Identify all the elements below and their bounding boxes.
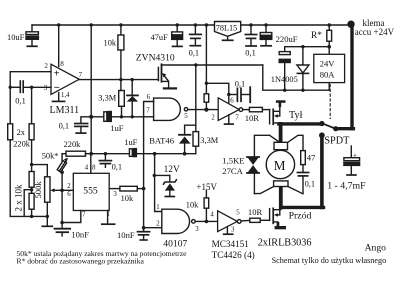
resistor R* (311, 23, 332, 54)
svg-text:7: 7 (146, 107, 150, 114)
node pot top tap (30, 163, 33, 166)
svg-text:Ango: Ango (365, 242, 387, 253)
op-amp LM311 (44, 61, 83, 116)
svg-text:2 x 10k: 2 x 10k (14, 184, 24, 212)
svg-text:500k: 500k (33, 181, 43, 199)
timer 555 (67, 154, 117, 219)
diode (parallel 3,3M) (127, 80, 138, 117)
svg-text:7: 7 (79, 72, 83, 79)
diode BAT46 (149, 135, 190, 154)
svg-text:Schemat tylko do użytku własne: Schemat tylko do użytku własnego (272, 256, 387, 265)
svg-text:2: 2 (156, 220, 160, 227)
node drain-BAT46 column (185, 65, 196, 135)
svg-text:Tył: Tył (289, 110, 303, 121)
svg-text:6: 6 (147, 94, 151, 101)
svg-text:0,1: 0,1 (15, 96, 25, 105)
svg-text:1uF: 1uF (110, 124, 123, 133)
svg-text:BAT46: BAT46 (149, 135, 175, 145)
svg-text:10uF: 10uF (7, 33, 25, 42)
svg-text:2: 2 (67, 183, 71, 190)
driver MC34151 A (211, 98, 242, 125)
capacitor 10uF (7, 25, 38, 46)
svg-text:0,1: 0,1 (112, 162, 122, 171)
svg-text:Przód: Przód (289, 211, 312, 222)
wire 40107A input tie bar (144, 102, 154, 117)
capacitor electrolytic (right of 78L15) (260, 23, 272, 46)
gate 40107 B (156, 204, 199, 249)
svg-text:555: 555 (83, 185, 98, 196)
svg-text:27CA: 27CA (222, 166, 243, 176)
svg-text:6: 6 (67, 191, 71, 198)
svg-text:R*: R* (311, 31, 322, 41)
wire LM311 output to ZVN gate (79, 79, 158, 81)
svg-text:1uF: 1uF (124, 138, 137, 147)
wire +24V column x206 (205, 23, 208, 26)
motor M (266, 150, 294, 178)
svg-text:1 - 4,7mF: 1 - 4,7mF (327, 181, 366, 192)
capacitor 47uF (151, 23, 183, 46)
gate 40107 A (146, 94, 188, 120)
svg-text:7: 7 (235, 115, 239, 122)
wire LM311 pin3 input (24, 86, 51, 88)
resistor 220k (left pair b) (13, 87, 34, 171)
svg-text:10R: 10R (245, 113, 260, 123)
svg-text:2x: 2x (17, 128, 26, 137)
svg-text:+: + (353, 150, 357, 159)
wire ZVN drain line (162, 64, 263, 66)
resistor 10R (driver B) (241, 207, 269, 223)
svg-text:3,3M: 3,3M (98, 94, 116, 103)
motor terminal top (274, 142, 288, 149)
svg-text:LM311: LM311 (50, 105, 80, 116)
capacitor 0,1 (right of 78L15) (245, 23, 256, 57)
svg-text:SPDT: SPDT (324, 136, 350, 147)
svg-text:TC4426 (4): TC4426 (4) (212, 250, 255, 260)
capacitor 1-4,7mF (327, 146, 366, 192)
svg-text:+: + (54, 68, 60, 79)
resistor 10k (divider a) (29, 172, 34, 188)
wire thick motor top (279, 122, 322, 125)
capacitor 0,1 (bootstrap) (229, 80, 250, 103)
svg-text:3: 3 (195, 226, 199, 233)
svg-text:8: 8 (92, 165, 96, 172)
wire left column down (9, 140, 11, 217)
resistor 10k (from rail) (104, 25, 124, 80)
svg-text:10R: 10R (248, 207, 263, 217)
wire relay top node (285, 46, 330, 48)
resistor 3,3M (BAT46) (193, 125, 219, 154)
capacitor 10nF (pot wiper) (55, 190, 90, 239)
capacitor 10nF (NAND B) (117, 230, 150, 240)
svg-text:12V: 12V (164, 165, 180, 175)
wire 40107B output (195, 220, 217, 222)
svg-text:1: 1 (156, 204, 159, 211)
svg-text:10k: 10k (104, 39, 117, 48)
svg-text:80A: 80A (320, 70, 336, 80)
svg-text:5: 5 (236, 210, 240, 217)
wire 40107A output (188, 109, 219, 111)
svg-text:1N4005: 1N4005 (271, 75, 298, 84)
transistor ZVN4310 (136, 52, 176, 88)
resistor 3,3M (comparator output) (98, 80, 124, 117)
svg-text:ZVN4310: ZVN4310 (136, 52, 175, 63)
resistor 47 (301, 151, 316, 165)
node rail-10k (119, 23, 122, 26)
motor terminal bottom (274, 181, 288, 187)
svg-text:10nF: 10nF (71, 229, 89, 239)
svg-text:24V: 24V (320, 58, 336, 68)
wire NAND B pin1 column (155, 154, 162, 212)
svg-text:220uF: 220uF (276, 34, 298, 44)
svg-text:10k: 10k (121, 194, 134, 203)
svg-text:0,1: 0,1 (189, 48, 199, 57)
svg-text:3: 3 (113, 191, 117, 198)
transistor Tyl MOSFET (270, 100, 303, 124)
svg-text:0,1: 0,1 (305, 179, 315, 188)
wire thick motor stubs (279, 124, 283, 142)
resistor 220k (left pair a) (8, 124, 13, 140)
wire 555 pins 2,6 (62, 189, 73, 191)
capacitor 1uF (coupling) (104, 112, 124, 134)
svg-text:3,3M: 3,3M (200, 136, 218, 145)
svg-text:8: 8 (60, 61, 64, 68)
driver MC34151 B (210, 210, 241, 235)
svg-text:50k*: 50k* (42, 152, 59, 161)
regulator 78L15 (215, 22, 241, 41)
wire bottom node (10, 215, 47, 217)
resistor 220k (horizontal, to 555) (62, 140, 85, 156)
svg-text:10k: 10k (186, 200, 199, 209)
node rail-pin8 (57, 23, 60, 26)
wire thick SPDT lower to motor bottom (320, 135, 324, 207)
svg-text:220k: 220k (13, 140, 31, 149)
zener 12V (154, 165, 180, 197)
capacitor 0,1 (LM311 input) (15, 81, 25, 105)
svg-text:R* dobrać do zastosowanego prz: R* dobrać do zastosowanego przekaźnika (17, 257, 145, 266)
svg-text:–: – (53, 82, 60, 93)
svg-text:MC34151: MC34151 (212, 239, 250, 249)
wire LM311 pin8 to rail (58, 25, 60, 67)
wire relay bottom line (263, 65, 329, 90)
svg-text:4: 4 (85, 165, 89, 172)
svg-text:1,5KE: 1,5KE (222, 155, 244, 165)
svg-text:2xIRLB3036: 2xIRLB3036 (258, 237, 312, 248)
wire NAND B pin2 column (143, 117, 145, 232)
svg-text:6: 6 (230, 98, 234, 105)
svg-text:0,1: 0,1 (245, 49, 255, 58)
capacitor 1uF (to 555 line) (124, 138, 137, 157)
svg-text:2: 2 (211, 114, 215, 121)
switch SPDT (319, 123, 353, 146)
svg-text:47: 47 (307, 152, 316, 162)
capacitor 0,1 (555 supply) (99, 154, 122, 172)
potentiometer 500k (33, 177, 62, 227)
node 1N4005 top (301, 45, 304, 48)
resistor 10k pullup +15V (186, 182, 218, 222)
node rail-x91 (90, 23, 93, 26)
svg-text:47uF: 47uF (151, 33, 169, 42)
svg-text:1,4: 1,4 (61, 92, 70, 99)
motor bridge frame (254, 135, 303, 193)
wire +24V top rail (32, 24, 353, 26)
wire LM311 pin2 input (10, 72, 51, 124)
diode 1N4005 (271, 47, 309, 90)
terminal klema accu (347, 21, 354, 28)
wire 555 pin7 (62, 211, 81, 223)
svg-text:40107: 40107 (163, 239, 187, 250)
wire comparator mix node y116.8 (81, 117, 144, 123)
svg-text:7: 7 (82, 212, 86, 219)
svg-text:+15V: +15V (196, 182, 217, 192)
svg-text:0,1: 0,1 (59, 122, 69, 131)
TVS 1,5KE27CA (222, 155, 259, 176)
resistor 10R (driver A) (243, 107, 270, 123)
wire dashed relay to switch (329, 85, 331, 119)
wire vertical x91 rail to 555 supply node (90, 25, 92, 154)
svg-text:accu +24V: accu +24V (355, 27, 395, 37)
svg-text:M: M (274, 158, 286, 173)
relay 24V 80A box (314, 54, 345, 90)
capacitor 220uF (relay) (279, 47, 290, 90)
resistor 10k (555 output) (109, 186, 143, 203)
svg-text:10nF: 10nF (117, 230, 135, 240)
resistor 10k (divider b) (14, 184, 35, 216)
wire jumper around lower 10k (24, 190, 31, 217)
svg-text:2: 2 (45, 63, 49, 70)
trimmer 50k* (42, 152, 68, 193)
svg-text:5: 5 (184, 113, 188, 120)
capacitor 0,1 (mix node) (59, 122, 88, 133)
resistor pullup (driver A input) (204, 94, 209, 102)
wire node line y153.7 (86, 153, 129, 155)
transistor Przod MOSFET (270, 208, 312, 229)
svg-text:4: 4 (210, 212, 214, 219)
wire thick +24V drop (350, 23, 353, 128)
svg-text:3: 3 (44, 85, 48, 92)
wire 555 pin1 ground (107, 211, 109, 224)
capacitor 0,1 (motor) (297, 173, 315, 189)
wire to pot top (32, 165, 48, 177)
svg-text:78L15: 78L15 (216, 23, 237, 32)
capacitor 0,1 (left of 78L15) (189, 23, 202, 57)
svg-text:0,1: 0,1 (235, 80, 245, 89)
svg-text:3: 3 (231, 227, 235, 234)
svg-text:220k: 220k (64, 140, 82, 149)
wire driver A Vcc pin6 (206, 83, 228, 103)
